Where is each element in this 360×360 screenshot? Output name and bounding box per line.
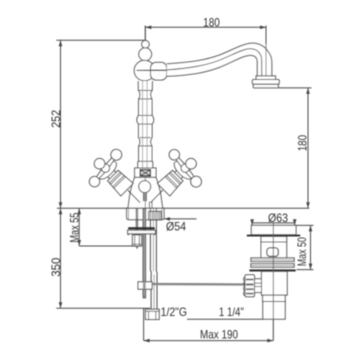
right hub ball bbox=[179, 162, 191, 174]
svg-text:Max 55: Max 55 bbox=[68, 212, 82, 242]
spout outlet centerline bbox=[265, 44, 267, 80]
left arm cones bbox=[95, 170, 105, 180]
drain body collar bbox=[263, 295, 286, 301]
spout ball joint lobe bbox=[151, 62, 167, 80]
body centerline bbox=[144, 177, 146, 207]
wheel link piece bbox=[255, 279, 262, 293]
drain ring 2 bbox=[251, 264, 294, 268]
flange lip bbox=[247, 235, 300, 237]
drain flange bbox=[251, 225, 296, 234]
svg-text:180: 180 bbox=[296, 135, 310, 152]
spout bottom edge bbox=[167, 55, 257, 76]
block X detail bbox=[140, 170, 150, 176]
dimension Max 55 bbox=[77, 208, 136, 246]
left button ball bbox=[92, 156, 107, 171]
left ball A bbox=[87, 174, 102, 189]
svg-text:252: 252 bbox=[49, 110, 63, 128]
dimension left 350 bbox=[56, 208, 150, 308]
outlet collar bbox=[256, 76, 275, 80]
spout top edge bbox=[167, 43, 272, 76]
valve body bbox=[128, 177, 163, 208]
overflow window bbox=[267, 248, 278, 257]
dimension left 252 bbox=[56, 40, 145, 208]
dimension top 180 line bbox=[145, 26, 266, 44]
1/2 G connector bbox=[145, 309, 159, 319]
mounting nut bbox=[132, 235, 141, 246]
outlet ring 1 bbox=[252, 80, 279, 85]
thumbwheel bbox=[244, 275, 255, 297]
leader diameter 54 bbox=[164, 218, 197, 220]
right skirt bbox=[171, 159, 194, 182]
right boss cone bbox=[157, 169, 184, 196]
drain tailpipe bbox=[263, 302, 285, 320]
right button neck bbox=[186, 162, 193, 169]
left button neck bbox=[98, 162, 105, 169]
right arms group bbox=[167, 147, 204, 189]
right ball A bbox=[167, 147, 182, 162]
threaded stud bbox=[135, 209, 137, 247]
spout middle line bbox=[137, 49, 262, 76]
drain neck bbox=[261, 237, 287, 258]
supply hose bbox=[150, 209, 157, 310]
pop-up knob stem bbox=[143, 193, 146, 201]
svg-text:1/2"G: 1/2"G bbox=[161, 305, 187, 319]
finial small ball bbox=[142, 41, 150, 49]
ribbed hose nut bbox=[149, 211, 161, 220]
column inner highlight lines bbox=[142, 81, 144, 168]
left boss cone bbox=[107, 169, 134, 196]
svg-text:1 1/4": 1 1/4" bbox=[219, 305, 244, 319]
base inner edge lines bbox=[128, 208, 130, 219]
deck mounting line bbox=[57, 207, 309, 209]
finial large ball bbox=[139, 48, 152, 61]
hub axis line bbox=[137, 70, 167, 72]
spout tube fill bbox=[167, 43, 272, 76]
stud tip bbox=[136, 247, 138, 249]
drain ring 3 dark bbox=[249, 269, 295, 271]
dimension right 180 bbox=[279, 88, 312, 208]
washer bbox=[128, 230, 156, 234]
left handle bbox=[80, 143, 143, 206]
right ball B bbox=[188, 174, 203, 189]
svg-text:180: 180 bbox=[203, 16, 220, 30]
left ball B bbox=[109, 147, 124, 162]
body boss diagonal right bbox=[151, 190, 163, 202]
pop-up knob bbox=[139, 181, 151, 193]
dimension diameter 63 bbox=[250, 219, 296, 225]
right handle bbox=[147, 143, 210, 206]
left skirt bbox=[96, 159, 119, 182]
dimension Max 190 bbox=[144, 308, 274, 342]
horizontal pop-up rod bbox=[152, 283, 277, 286]
drain body bbox=[262, 272, 288, 296]
spout hub bbox=[134, 60, 155, 80]
neck ring line bbox=[261, 241, 287, 243]
leader 1 1/4 bbox=[187, 318, 263, 320]
body boss diagonal left bbox=[128, 190, 140, 202]
column body bbox=[138, 81, 153, 168]
column ring lines bbox=[138, 90, 152, 161]
rod clamp bbox=[138, 282, 152, 289]
svg-text:Ø54: Ø54 bbox=[166, 219, 186, 233]
left arms group bbox=[87, 147, 124, 189]
left boss bands bbox=[109, 172, 120, 183]
left neck bbox=[105, 168, 116, 179]
svg-text:Max 190: Max 190 bbox=[200, 328, 238, 342]
svg-text:350: 350 bbox=[49, 257, 63, 276]
right boss bands bbox=[170, 172, 181, 183]
column left edge bbox=[137, 81, 140, 168]
gasket bbox=[128, 227, 155, 229]
left hub ball bbox=[100, 162, 112, 174]
pop-up vertical rod bbox=[143, 209, 146, 298]
column block bbox=[135, 168, 156, 177]
right button ball bbox=[184, 156, 199, 171]
body supply stubs bbox=[148, 202, 150, 209]
base escutcheon bbox=[127, 208, 164, 220]
svg-text:Max 50: Max 50 bbox=[295, 237, 309, 266]
outlet ring 2 bbox=[253, 84, 278, 88]
faucet centerline bbox=[144, 26, 146, 61]
column right edge bbox=[151, 81, 154, 168]
right neck bbox=[175, 168, 186, 179]
drain centerline bbox=[272, 223, 274, 341]
svg-text:Ø63: Ø63 bbox=[268, 211, 288, 225]
rod end cap bbox=[143, 296, 147, 299]
right arm cones bbox=[175, 156, 185, 166]
drain ring 1 bbox=[251, 258, 294, 262]
dimension Max 50 bbox=[297, 225, 314, 269]
